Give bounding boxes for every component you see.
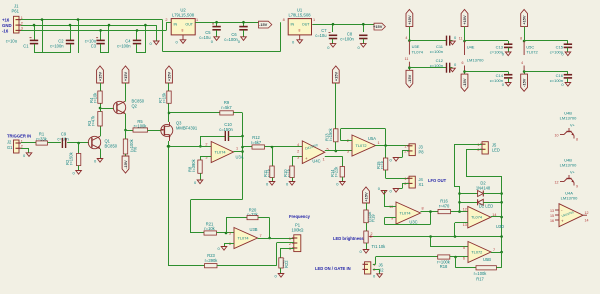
wire GND rail xyxy=(21,25,156,27)
svg-text:Tr1 10k: Tr1 10k xyxy=(372,244,387,249)
svg-text:c=150n: c=150n xyxy=(219,127,233,132)
svg-text:TL072: TL072 xyxy=(356,143,367,148)
svg-text:+15V: +15V xyxy=(167,72,172,82)
op-amp U5B TL072 xyxy=(468,242,491,263)
resistor R17 feedback xyxy=(455,257,457,268)
net label +15V tag xyxy=(374,23,385,30)
wire -16 feed to U2 xyxy=(166,22,168,30)
op-amp U3C TL074 xyxy=(396,202,421,224)
svg-text:G1: G1 xyxy=(7,145,13,150)
svg-text:U3D: U3D xyxy=(496,224,504,229)
wire J6 pin2 to ground xyxy=(373,269,380,271)
svg-text:IN: IN xyxy=(174,23,178,27)
wire Tr1 wiper line xyxy=(373,236,502,238)
svg-text:LED ON / GATE IN: LED ON / GATE IN xyxy=(315,266,351,271)
wire J2 pin2 to ground xyxy=(21,148,29,150)
svg-text:LED brightness: LED brightness xyxy=(333,236,364,241)
svg-text:R19: R19 xyxy=(370,214,375,222)
svg-text:U5A: U5A xyxy=(368,136,376,141)
svg-text:2: 2 xyxy=(371,232,373,236)
connector J4 LFO OUT xyxy=(409,176,415,188)
svg-text:16: 16 xyxy=(550,219,554,223)
svg-text:1: 1 xyxy=(196,18,198,22)
svg-text:C1: C1 xyxy=(23,44,29,49)
wire Q3 source to integrator input xyxy=(168,141,170,146)
svg-text:+15V: +15V xyxy=(522,15,527,25)
svg-text:c=10u: c=10u xyxy=(199,35,210,40)
wire pot wiper to R23 node xyxy=(277,242,294,244)
power flag +15V above R19 xyxy=(363,187,370,203)
svg-text:U4E: U4E xyxy=(467,45,475,50)
wire U4C bias pin1 to R14 xyxy=(325,156,343,158)
svg-text:J3: J3 xyxy=(419,144,424,149)
svg-text:L79L15,S08: L79L15,S08 xyxy=(172,13,195,18)
wire Q1 collector to R3 xyxy=(100,126,102,136)
svg-text:c=100n: c=100n xyxy=(224,37,238,42)
wire +16 feed to U1 xyxy=(162,20,164,52)
svg-text:TRIGGER IN: TRIGGER IN xyxy=(7,134,31,139)
svg-text:r=10k: r=10k xyxy=(93,92,98,103)
svg-text:c=10n: c=10n xyxy=(57,137,69,142)
svg-text:10: 10 xyxy=(389,205,393,209)
svg-text:+15V: +15V xyxy=(123,72,128,82)
ground for R8 xyxy=(200,173,202,180)
op-amp U4C LM13700 OTA xyxy=(302,141,325,164)
ground for R2 xyxy=(78,166,80,171)
op-amp U3B TL074 xyxy=(234,228,258,249)
svg-text:7: 7 xyxy=(493,248,495,252)
svg-text:U5B: U5B xyxy=(483,257,491,262)
svg-text:-15V: -15V xyxy=(522,78,527,87)
transistor Q1 BC850 xyxy=(88,136,100,148)
svg-text:r=6k7: r=6k7 xyxy=(251,140,262,145)
svg-text:X1: X1 xyxy=(419,182,425,187)
svg-text:1: 1 xyxy=(313,18,315,22)
trimmer Tr1 LED brightness xyxy=(364,231,368,243)
wire flag to Q2 collector xyxy=(125,83,127,102)
svg-text:r=22k: r=22k xyxy=(334,166,339,177)
wire R7 to junction and JFET drain xyxy=(168,103,170,122)
svg-text:V+: V+ xyxy=(570,171,576,175)
power flag +15V above Q2 xyxy=(122,66,129,83)
svg-text:r=470: r=470 xyxy=(439,203,450,208)
svg-text:+: + xyxy=(305,156,308,161)
svg-text:OUT: OUT xyxy=(185,23,193,27)
svg-text:r=47k: r=47k xyxy=(91,115,96,126)
net label -15V tag xyxy=(259,21,272,28)
wire flag to R13 xyxy=(335,83,337,129)
power flag -15V below R6 xyxy=(125,154,127,156)
svg-text:c=100n: c=100n xyxy=(50,44,64,49)
svg-text:+15V: +15V xyxy=(364,192,369,202)
svg-text:2: 2 xyxy=(347,139,349,143)
svg-text:TL072: TL072 xyxy=(526,49,538,54)
svg-text:J5: J5 xyxy=(492,142,497,147)
svg-text:6: 6 xyxy=(463,257,465,261)
svg-text:13: 13 xyxy=(550,209,554,213)
power flag -15V U5C xyxy=(524,72,526,75)
wire pot pin3 to R22 xyxy=(281,248,294,250)
svg-text:U4C: U4C xyxy=(312,159,320,164)
svg-text:1: 1 xyxy=(404,144,406,148)
svg-text:r=390k: r=390k xyxy=(191,158,196,172)
svg-text:r=10k: r=10k xyxy=(204,226,215,231)
svg-text:2: 2 xyxy=(373,268,375,272)
svg-text:15: 15 xyxy=(550,214,554,218)
connector J5 LED xyxy=(482,142,488,154)
svg-text:+15V: +15V xyxy=(462,15,467,25)
diode D1 xyxy=(460,202,478,204)
svg-text:-15V: -15V xyxy=(407,74,412,83)
wire -16 rail xyxy=(21,30,166,32)
wire R15 to J4 xyxy=(385,170,387,178)
wire J3 pin2 to ground xyxy=(402,150,409,152)
wire U5A feedback loop xyxy=(341,140,353,142)
wire U3C feedback loop xyxy=(385,217,397,219)
svg-text:8: 8 xyxy=(182,29,184,33)
svg-text:MMBF4391: MMBF4391 xyxy=(176,126,198,131)
svg-text:+15V: +15V xyxy=(407,15,412,25)
wire R3 top to R4 bottom junction xyxy=(100,103,102,111)
svg-text:3: 3 xyxy=(289,247,291,251)
svg-text:2: 2 xyxy=(297,149,299,153)
svg-text:1: 1 xyxy=(378,141,380,145)
svg-text:L78L15,S08: L78L15,S08 xyxy=(288,13,311,18)
svg-text:4: 4 xyxy=(297,143,299,147)
svg-text:LM13700: LM13700 xyxy=(560,163,577,168)
svg-text:-15V: -15V xyxy=(123,160,128,169)
svg-text:GND: GND xyxy=(2,23,12,28)
svg-text:P8: P8 xyxy=(419,150,425,155)
wire R5 to Q3 gate xyxy=(148,130,161,132)
svg-text:LED: LED xyxy=(492,148,500,153)
svg-text:-16: -16 xyxy=(2,28,9,33)
wire U3C non-inverting to ground xyxy=(384,206,396,208)
wire U3D output xyxy=(491,216,502,218)
wire J5 pin2 path xyxy=(466,149,482,151)
transistor Q3 MMBF4391 JFET xyxy=(161,124,173,136)
svg-text:6: 6 xyxy=(462,61,464,65)
wire U3B inverting input to ground xyxy=(224,243,234,245)
svg-text:TL074: TL074 xyxy=(471,215,483,220)
svg-text:D1 LED: D1 LED xyxy=(479,204,493,209)
ground for Tr1 xyxy=(366,243,368,250)
ground for U2 xyxy=(182,35,184,40)
svg-text:1: 1 xyxy=(236,146,238,150)
transistor Q2 BC850 xyxy=(113,101,125,113)
power flag +15V U4E xyxy=(461,10,468,27)
power flag +15V above R7 xyxy=(166,66,173,83)
svg-text:U2: U2 xyxy=(180,7,186,12)
svg-text:BC850: BC850 xyxy=(105,144,118,149)
wire U1 output +15V xyxy=(312,24,374,26)
svg-text:8: 8 xyxy=(283,18,285,22)
wire hysteresis feedback vertical xyxy=(168,146,170,265)
svg-text:2: 2 xyxy=(21,21,23,25)
svg-text:100kΩ: 100kΩ xyxy=(292,228,304,233)
wire R10 to U4C non-inverting input xyxy=(292,156,302,158)
svg-text:2: 2 xyxy=(165,18,167,22)
wire R16 to U3D xyxy=(451,211,468,213)
svg-text:TL072: TL072 xyxy=(471,250,482,255)
ground for R10 xyxy=(292,178,294,182)
svg-text:LM13700: LM13700 xyxy=(561,196,578,201)
svg-text:c=100n: c=100n xyxy=(117,44,131,49)
wire U5A output to J3 xyxy=(376,145,410,147)
ground for R11 xyxy=(272,178,274,182)
svg-text:R22: R22 xyxy=(284,260,289,268)
svg-text:TL074: TL074 xyxy=(238,236,250,241)
svg-text:TL074: TL074 xyxy=(215,150,227,155)
wire U5B non-inverting input xyxy=(431,246,468,248)
svg-text:2: 2 xyxy=(205,142,207,146)
svg-text:12: 12 xyxy=(555,181,559,185)
svg-text:J4: J4 xyxy=(419,177,424,182)
op-amp U3A TL074 xyxy=(211,142,233,163)
wire R13 to output node xyxy=(335,142,337,151)
svg-text:TL074: TL074 xyxy=(400,211,412,216)
svg-text:P61: P61 xyxy=(12,9,20,14)
svg-text:C3: C3 xyxy=(91,44,97,49)
power flag +15V above R4 xyxy=(97,66,104,83)
svg-text:U3B: U3B xyxy=(250,227,258,232)
svg-text:1: 1 xyxy=(323,158,325,162)
svg-text:IN: IN xyxy=(291,23,295,27)
svg-text:+15V: +15V xyxy=(333,72,338,82)
wire U3A non-inverting input to R8 xyxy=(200,156,211,158)
svg-text:r=150k: r=150k xyxy=(69,151,74,165)
svg-text:U3C: U3C xyxy=(409,219,417,224)
svg-text:3: 3 xyxy=(297,156,299,160)
wire J6 pin1 to R18 xyxy=(373,264,376,266)
connector J3 xyxy=(409,144,415,156)
op-amp U5A TL072 xyxy=(352,135,376,156)
wire flag to R19 xyxy=(366,203,368,210)
svg-text:7: 7 xyxy=(260,234,262,238)
svg-text:U1: U1 xyxy=(297,7,303,12)
wire junction to Q2 base xyxy=(100,108,114,110)
svg-text:+15V: +15V xyxy=(98,72,103,82)
svg-text:c=10u: c=10u xyxy=(6,39,17,44)
svg-text:TL074: TL074 xyxy=(412,50,424,55)
svg-text:R6: R6 xyxy=(132,146,137,152)
svg-text:4: 4 xyxy=(405,36,407,40)
svg-text:OUT: OUT xyxy=(302,23,310,27)
svg-text:R18: R18 xyxy=(440,264,448,269)
wire comparator input from integrator output xyxy=(191,199,243,201)
svg-text:c=100n: c=100n xyxy=(430,49,443,54)
svg-text:5: 5 xyxy=(229,232,231,236)
wire U3C output xyxy=(421,211,439,213)
wire flag to R4 xyxy=(100,83,102,91)
power flag -15V U3E xyxy=(409,68,411,71)
wire Q2 emitter down xyxy=(125,114,127,131)
svg-text:8: 8 xyxy=(576,138,578,142)
wire J4 pin2 to ground xyxy=(402,183,409,185)
svg-text:R17: R17 xyxy=(476,276,484,281)
wire diode bridge left vertical xyxy=(459,186,461,212)
svg-text:14: 14 xyxy=(585,219,589,223)
wire U3B output to pot xyxy=(258,238,294,240)
svg-text:LFO OUT: LFO OUT xyxy=(428,178,447,183)
wire J2 pin1 to R1 xyxy=(21,142,36,144)
svg-text:r=5k7: r=5k7 xyxy=(221,105,232,110)
wire R1 to C9 xyxy=(48,142,61,144)
power flag +15V U5C xyxy=(521,10,528,27)
wire flag to R7 xyxy=(168,83,170,91)
svg-text:c=100n: c=100n xyxy=(340,37,354,42)
svg-text:U3A: U3A xyxy=(236,154,244,159)
power flag +15V above R13 xyxy=(332,66,339,83)
svg-text:J2: J2 xyxy=(7,140,12,145)
resistor R18 xyxy=(438,255,450,259)
svg-text:9: 9 xyxy=(576,185,578,189)
ground for GND rail xyxy=(156,25,158,41)
svg-text:11: 11 xyxy=(405,57,409,61)
svg-text:1: 1 xyxy=(289,237,291,241)
svg-text:+15V: +15V xyxy=(373,24,383,29)
svg-text:1: 1 xyxy=(404,177,406,181)
wire U3A output xyxy=(234,151,243,153)
svg-text:12: 12 xyxy=(463,207,467,211)
svg-text:8: 8 xyxy=(422,207,424,211)
svg-text:J6: J6 xyxy=(379,262,384,267)
svg-text:V+: V+ xyxy=(570,124,576,128)
svg-text:c=10u: c=10u xyxy=(315,33,326,38)
svg-text:Frequency: Frequency xyxy=(289,214,311,219)
wire R19 to trimmer xyxy=(366,223,368,231)
svg-text:8: 8 xyxy=(520,37,522,41)
op-amp U3D TL074 xyxy=(468,206,491,228)
wire J5 pin1 path xyxy=(454,144,482,146)
wire U3A inverting input xyxy=(168,146,211,148)
power flag +15V U3E xyxy=(406,10,413,27)
svg-text:5: 5 xyxy=(463,246,465,250)
power flag -15V U4E xyxy=(464,72,466,75)
wire C9 to Q1 base xyxy=(67,142,89,144)
wire U2 output -15V xyxy=(195,22,258,24)
wire U5B output xyxy=(491,252,502,254)
svg-text:13: 13 xyxy=(463,223,467,227)
connector J6 gate input xyxy=(365,262,371,274)
svg-text:11: 11 xyxy=(459,37,463,41)
wire feedback vertical xyxy=(242,113,244,200)
ground for Q1 emitter xyxy=(100,149,102,159)
svg-text:8: 8 xyxy=(299,29,301,33)
wire U4C output xyxy=(325,150,352,152)
svg-text:4: 4 xyxy=(521,61,523,65)
ground for U1 xyxy=(299,35,301,40)
svg-text:-15V: -15V xyxy=(462,78,467,87)
ground for R22 xyxy=(280,268,282,274)
svg-text:+: + xyxy=(561,219,564,224)
wire R18 to U5B inverting input xyxy=(450,256,468,258)
svg-text:3: 3 xyxy=(347,150,349,154)
svg-text:12: 12 xyxy=(585,211,589,215)
svg-text:LM13700: LM13700 xyxy=(560,116,577,121)
svg-text:r=15k: r=15k xyxy=(162,92,167,103)
svg-text:Q2: Q2 xyxy=(132,104,138,109)
svg-text:1N4148: 1N4148 xyxy=(476,185,491,190)
svg-text:10: 10 xyxy=(555,134,559,138)
wire +16 rail xyxy=(21,19,163,21)
ground for R14 xyxy=(342,177,344,182)
wire U3D non-inverting input loop xyxy=(455,222,468,224)
svg-text:LM13700: LM13700 xyxy=(467,57,484,62)
svg-text:P1: P1 xyxy=(295,222,301,227)
svg-text:U3E: U3E xyxy=(412,44,420,49)
svg-text:r=390k: r=390k xyxy=(205,258,219,263)
svg-text:-15V: -15V xyxy=(259,22,268,27)
svg-text:r=150k: r=150k xyxy=(328,127,333,141)
svg-text:+16: +16 xyxy=(2,18,10,23)
